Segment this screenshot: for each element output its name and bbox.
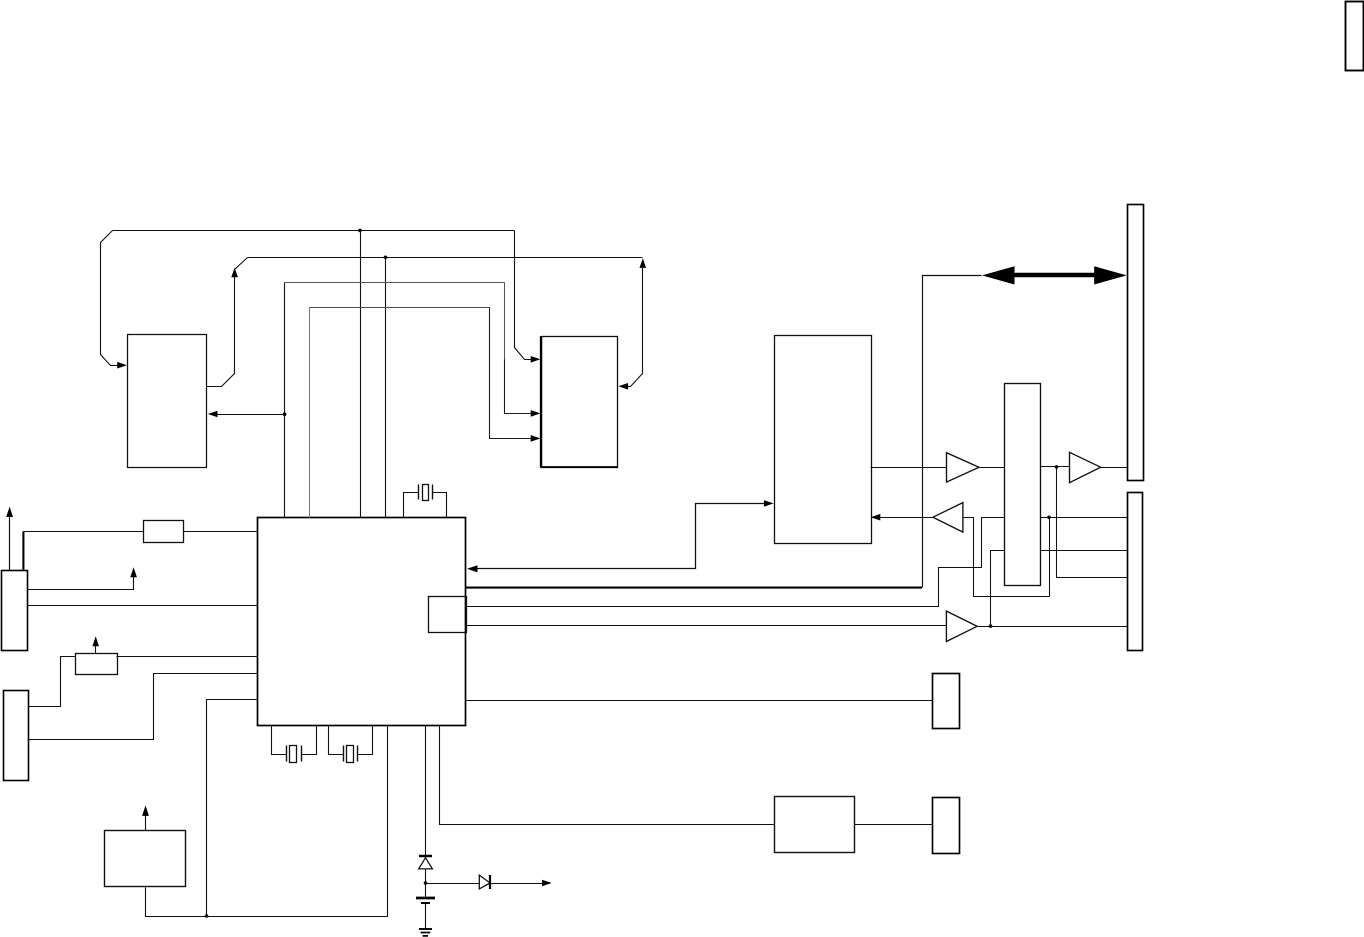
arrow net-B up (right stub) (640, 258, 647, 268)
wire net-B horizontal (y=257) (248, 257, 643, 259)
crystal X3 right leg (433, 493, 447, 518)
block U5 (driver/receiver box) (775, 336, 872, 544)
wire U1 left via R2 (117, 656, 258, 658)
wire U4a to U6 left (980, 467, 1005, 469)
ground GND bar 1 (419, 928, 432, 930)
arrow U7 stub up (142, 806, 149, 816)
wire U1 left to CN2 lower pin (28, 674, 258, 740)
wire D2 output (491, 883, 544, 885)
battery BT1 positive plate (416, 897, 435, 900)
connector CN1 (left edge connector, upper) (2, 571, 28, 651)
wire net-B left vertical with bevel into U2 right edge (207, 276, 235, 387)
wire net-C right vertical (grey upper) (504, 283, 506, 361)
wire battery to ground (425, 904, 427, 929)
wire net-D horizontal (y=307, grey) (310, 307, 490, 309)
arrow net-C into U2 right edge (208, 411, 218, 418)
wire CN1 right to floating stub (28, 577, 134, 590)
arrow into U1 right edge (467, 565, 478, 572)
arrow net-A into U3 left edge (531, 356, 541, 363)
wire U4d output into U5 (879, 517, 933, 519)
junction dot battery node (424, 881, 428, 885)
crystal X3 electrode bars (419, 485, 433, 500)
arrow net-B up (left stub) (231, 268, 238, 278)
junction dot at CN4 wire (1047, 516, 1051, 520)
crystal X2 right leg (358, 726, 373, 755)
wire U1a out (y=626) to U4c (466, 625, 947, 627)
wire U1a out (y=606) stepped to U6 left (466, 518, 1005, 607)
block U1a (sub-block inside CPU right edge) (429, 597, 467, 633)
arrow net-D into U3 left edge (531, 435, 541, 442)
wire net-B vertical to U1 top (385, 258, 387, 518)
ground GND bar 2 (421, 932, 431, 934)
wire net-B left bevel (235, 258, 248, 270)
bus double-arrow shaft (1008, 273, 1101, 278)
wire R2 left to CN2 (28, 657, 76, 707)
arrow into U5 right edge (871, 514, 881, 521)
junction dot net-A (358, 229, 362, 233)
wire battery node to diode D2 (426, 883, 480, 885)
arrow net-B into U3 right edge (618, 383, 628, 390)
block U7 (bottom-left power box) (105, 831, 186, 887)
wire U4c junction up to U6 left (y=550) (991, 551, 1005, 627)
wire CN1 top stub up (9, 516, 11, 571)
arrow floating stub up (130, 567, 137, 577)
junction dot bottom rail (205, 914, 209, 918)
wire net-B right vertical with bevel toward U3 (627, 267, 643, 387)
wire U5 to U4a (871, 467, 947, 469)
wire U8 to CN6 (855, 824, 933, 826)
wire U1 right to CN5 (466, 700, 933, 702)
connector CN6 (small box, bottom-right) (933, 798, 960, 854)
wire net-C horizontal (y=283, grey) (285, 282, 505, 284)
block U1 (main CPU) (258, 518, 466, 726)
wire net-A right drop with bevel into U3 (515, 231, 533, 360)
junction dot net-B (384, 255, 388, 259)
wire CN1 right to U1 left (28, 605, 258, 607)
arrow into U5 left edge (764, 500, 774, 507)
wire thick data bus U1 to riser (466, 587, 922, 589)
wire net-C left vertical to U1 top (284, 283, 286, 518)
arrow CN1 stub up (6, 507, 13, 517)
crystal X1 right leg (302, 726, 317, 755)
wire U4d input stub (964, 518, 1050, 597)
block U2 (left memory box) (128, 335, 207, 468)
battery BT1 negative plate (421, 902, 430, 904)
crystal X2 left leg (329, 726, 344, 755)
junction dot net-C (283, 412, 287, 416)
crystal X1 electrode bars (287, 746, 302, 762)
block U3 thick left edge (540, 336, 542, 467)
wire net-C right vertical lower and into U3 (505, 360, 533, 414)
connector CN2 (left edge connector, lower) (4, 691, 29, 781)
connector J5 (top-right corner box) (1346, 2, 1364, 71)
wire net-A left drop with bevel into U2 (101, 231, 120, 366)
junction dot on U4c output (989, 624, 993, 628)
buffer U4b (right-pointing, after U6) (1070, 452, 1101, 482)
arrow net-A into U2 left edge (117, 362, 127, 369)
wire net-D right vertical and into U3 (490, 308, 533, 439)
connector CN5 (small box, mid-right) (933, 674, 960, 729)
bus double-arrow left head (982, 266, 1015, 284)
wire net-A horizontal (y=230) (113, 230, 515, 232)
wire U1 bottom to U8 (440, 726, 775, 825)
wire R2 stub up (95, 646, 97, 654)
diode D2 body (pointing right) (479, 875, 490, 889)
wire U1 bottom to diode D1 (425, 726, 427, 856)
wire U1 left down to bottom rail (207, 700, 258, 917)
connector CN3 (right edge connector, upper) (1128, 205, 1144, 481)
wire U6 right to U4b (1041, 466, 1070, 468)
arrow D2 output right (542, 880, 552, 887)
crystal X3 left leg (404, 493, 419, 518)
crystal X2 body (347, 746, 354, 763)
wire net-A vertical to U1 top (360, 231, 362, 518)
diode D2 cathode bar (489, 875, 491, 889)
buffer U4c (right-pointing, lower) (946, 611, 977, 641)
wire U4b output to CN3 (1101, 467, 1128, 469)
wire VCC pullup from U1 left via R1 (184, 531, 258, 533)
crystal X1 left leg (272, 726, 287, 755)
wire net-D left vertical to U1 top (grey) (309, 308, 311, 518)
resistor R1 (in-line box on CPU left wire) (144, 521, 184, 543)
block U3 thick bottom edge (540, 466, 618, 468)
bus double-arrow right head (1094, 266, 1127, 284)
crystal X3 body (423, 485, 429, 501)
wire U1 right bus stub (arrow into U1) (475, 504, 766, 569)
block U3 (right memory box) (542, 337, 618, 468)
wire U4c output to CN4 (978, 626, 1128, 628)
buffer U4a (right-pointing, to CN3) (947, 453, 980, 482)
diode D1 body (pointing up) (419, 858, 433, 869)
junction dot on U4b input (1055, 465, 1059, 469)
block U8 (bottom-right driver box) (775, 797, 855, 853)
diode D1 cathode bar (419, 855, 432, 858)
arrow R2 stub up (92, 636, 99, 646)
wire net-C branch into U2 right edge (216, 414, 285, 416)
buffer U4d (left-pointing, into U5) (933, 503, 963, 532)
connector CN4 (right edge connector, lower) (1128, 493, 1143, 651)
block U6 (tall buffer box) (1005, 384, 1041, 586)
ground GND bar 3 (423, 935, 428, 937)
wire U6 right to CN4 (y=517) (1041, 517, 1128, 519)
wire bus riser up (923, 276, 982, 588)
wire U6 right to CN4 (y=550) (1041, 550, 1128, 552)
wire corner down to CN1 top (thick) (22, 531, 24, 570)
wire junction drop to CN4 (y=577) (1057, 467, 1128, 578)
resistor R2 (in-line box on CPU left wire) (76, 654, 118, 675)
wire U7 stub up (145, 816, 147, 831)
wire D1 to battery node (425, 869, 427, 897)
arrow net-C into U3 left edge (531, 410, 541, 417)
wire R1 to left corner (24, 531, 144, 533)
wire bottom rail from U7 (146, 726, 388, 917)
crystal X2 electrode bars (344, 746, 358, 762)
crystal X1 body (290, 746, 297, 763)
